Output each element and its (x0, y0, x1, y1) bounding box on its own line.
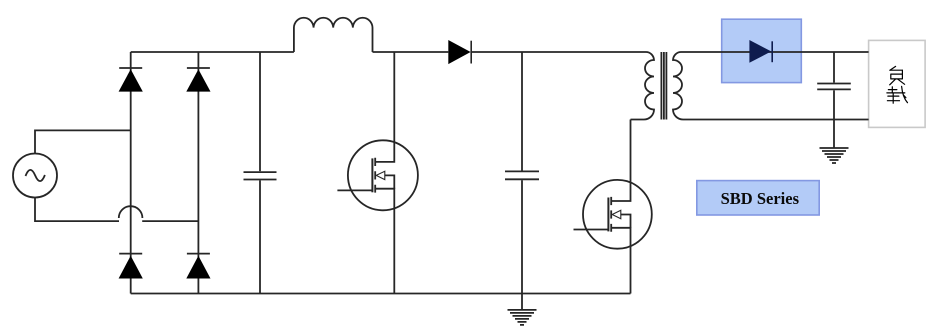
diode D3 (bridge bottom-left) (119, 253, 142, 255)
wire: bridge left leg (130, 52, 132, 294)
text 负 (load char 1) drawn as strokes (890, 66, 905, 84)
Q1 gate lead (337, 189, 372, 191)
Q1 drain (375, 52, 394, 162)
text 载 (load char 2) drawn as strokes (887, 86, 908, 103)
capacitor C3 (output) (833, 52, 835, 83)
diode D4 (bridge bottom-right) (187, 253, 210, 255)
MOSFET Q1 (boost switch) (348, 140, 418, 210)
capacitor C2 (521, 52, 523, 171)
Q1 channel segments (374, 158, 376, 193)
wire hop over left bridge leg (119, 206, 143, 218)
wire: top bus from boost diode to transformer (471, 51, 646, 53)
Q2 body arrow (612, 210, 621, 218)
Q1 body arrow (376, 171, 385, 179)
wire: hop to right bridge leg (142, 220, 198, 222)
wire: bottom bus (131, 293, 631, 295)
highlight box (SBD diode) (722, 19, 802, 82)
ground (secondary output) (820, 148, 849, 163)
svg-text:SBD Series: SBD Series (721, 189, 800, 208)
wire: bridge right leg (197, 52, 199, 294)
diode D6 (output SBD) (749, 40, 771, 63)
load box (869, 40, 926, 127)
MOSFET Q2 (PWM switch) (583, 180, 652, 249)
AC source V1 (13, 154, 57, 198)
ground (primary, below C2) (521, 294, 523, 310)
wire: top bus from inductor to boost diode (373, 51, 449, 53)
wire: AC bottom lead toward bridge right midpoint (35, 198, 119, 222)
diode D2 (bridge top-right) (187, 67, 210, 69)
Q2 drain (611, 120, 630, 202)
Q1 source (375, 189, 394, 294)
diode D1 (bridge top-left) (119, 67, 142, 69)
wire: AC top lead to bridge left midpoint (35, 130, 131, 153)
transformer T1 primary winding (631, 52, 655, 120)
Q2 source (611, 228, 630, 294)
Q2 gate lead (574, 229, 609, 231)
transformer T1 core (661, 52, 666, 120)
Q2 channel segments (610, 197, 612, 232)
inductor L1 (294, 18, 373, 52)
transformer T1 secondary winding (673, 52, 869, 120)
Q1 gate bar (371, 158, 373, 192)
capacitor C1 (259, 52, 261, 171)
diode D5 (boost) (448, 40, 470, 64)
Q2 gate bar (607, 198, 609, 232)
wire: top bus from bridge to inductor (131, 51, 294, 53)
SBD Series label box (697, 181, 819, 215)
